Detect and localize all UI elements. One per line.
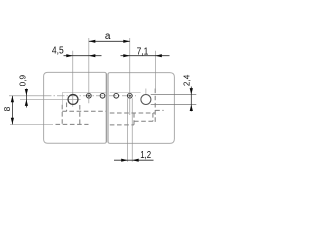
dimension 2,4 line	[190, 87, 192, 112]
hidden dashed cavity left block vertical	[61, 105, 63, 125]
junction wall line left	[105, 73, 107, 142]
extension line 7,1 right	[154, 51, 156, 91]
hidden dashed front edge left block	[56, 123, 89, 125]
extension line 1,2 left	[127, 98, 129, 162]
svg-text:4,5: 4,5	[52, 46, 64, 57]
hidden dashed vertical mid left block	[79, 105, 81, 124]
pin 1	[87, 93, 92, 98]
hidden dashed stub right block	[155, 109, 163, 111]
dimension 7,1 line	[121, 55, 170, 57]
internal step vertical left block	[62, 92, 64, 105]
dimension a line	[89, 40, 130, 42]
flange screw hole left	[68, 95, 78, 105]
dimension 1,2 line	[114, 159, 154, 161]
centerline stub above right flange hole	[145, 89, 147, 95]
housing outline right block	[108, 73, 174, 144]
centerline flange row left stub	[20, 98, 65, 100]
extension line 1,2 right	[131, 98, 133, 162]
crosshair left flange circle vertical	[72, 51, 74, 107]
hidden dashed upper edge right block	[110, 112, 155, 114]
dimension 0,9 line	[25, 89, 27, 108]
hidden dashed lower edge right block	[134, 120, 153, 122]
8 bottom reference line	[10, 124, 53, 126]
tangent reference line bottom right	[151, 104, 197, 106]
hidden dashed vertical right block b	[152, 113, 154, 121]
dimension 4,5 line	[64, 55, 102, 57]
extension line pin4	[129, 38, 131, 115]
hidden dashed vertical right block c	[154, 89, 156, 123]
crosshair left flange circle horizontal	[65, 98, 80, 100]
housing outline left block	[44, 72, 107, 143]
svg-text:8: 8	[2, 106, 12, 111]
svg-text:0,9: 0,9	[17, 75, 27, 87]
svg-text:2,4: 2,4	[181, 74, 191, 86]
pin 3	[114, 93, 119, 98]
svg-text:1,2: 1,2	[140, 150, 151, 161]
junction wall line right	[107, 74, 109, 143]
internal step edge right block	[110, 91, 141, 93]
hidden dashed front edge right block	[110, 124, 134, 126]
internal step edge left block	[63, 91, 107, 93]
flange screw hole right	[141, 95, 151, 105]
pin 4	[127, 93, 132, 98]
hidden dashed vertical short left block	[66, 103, 68, 112]
dimension 8 line	[11, 96, 13, 125]
pin 2	[100, 93, 105, 98]
tangent reference line top right	[151, 94, 197, 96]
hidden dashed vertical right block a	[133, 113, 135, 125]
svg-text:7,1: 7,1	[137, 47, 149, 58]
svg-text:a: a	[105, 31, 111, 42]
extension line pin1	[88, 38, 90, 103]
hidden dashed upper edge left block	[62, 110, 106, 112]
centerline pin row	[9, 95, 44, 97]
